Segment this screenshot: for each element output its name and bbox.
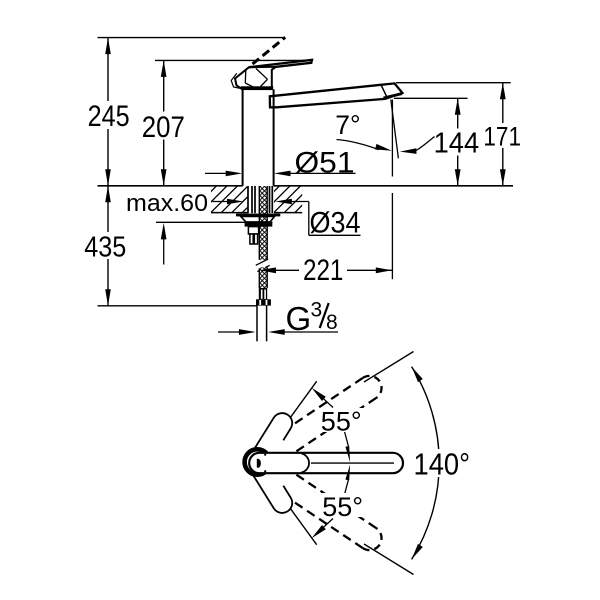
- svg-text:207: 207: [142, 111, 185, 144]
- counter top line: [98, 185, 243, 187]
- svg-text:245: 245: [88, 100, 130, 133]
- threaded shank vertical lines: [247, 186, 249, 213]
- hose connector upper: [259, 288, 267, 299]
- 55 deg leader to reference line (lower): [316, 519, 333, 535]
- 55 deg leader to center line (lower): [345, 479, 349, 495]
- dimension 207 line: [163, 60, 165, 185]
- vertical reference line from spout tip: [391, 100, 393, 177]
- counter underside line left: [211, 212, 248, 214]
- 7 deg left leader arc: [337, 140, 379, 150]
- dimension 245 line: [107, 38, 109, 186]
- dimension 435 line: [107, 186, 109, 306]
- arrow 140 arc top: [412, 367, 423, 383]
- arrow 144 bottom: [455, 169, 461, 186]
- svg-text:435: 435: [84, 231, 126, 263]
- arrow 171 bottom: [500, 169, 506, 186]
- faucet body circle (top view): [245, 449, 270, 474]
- svg-text:max.60: max.60: [126, 190, 208, 217]
- flange skirt: [241, 216, 275, 222]
- body end cap arc (top view): [301, 453, 309, 472]
- extension line bottom of 435 (hose nut level): [98, 305, 258, 307]
- 55 deg leader to reference line (upper): [316, 392, 333, 408]
- arrow 207 top: [161, 60, 167, 77]
- lever raised position (dashed): [253, 37, 286, 64]
- arrow 144 top: [455, 98, 461, 115]
- faucet column body: [242, 89, 244, 185]
- spout capsule (top view, solid): [249, 453, 403, 473]
- dimension 171 line: [502, 83, 504, 186]
- hose connector nut: [256, 299, 271, 305]
- 7 deg right leader arc: [415, 137, 435, 152]
- leader line for Ø34: [275, 199, 292, 205]
- dimension 144 line: [457, 98, 459, 186]
- counter underside line right: [274, 212, 302, 214]
- arrow 245 top: [105, 38, 111, 55]
- handle facet lines: [244, 69, 247, 83]
- svg-text:3: 3: [311, 299, 323, 322]
- dashed swivel spout position lower: [259, 479, 363, 549]
- svg-text:55°: 55°: [321, 406, 362, 436]
- dimension 221: [260, 267, 277, 273]
- arrow 140 arc bottom: [412, 544, 423, 560]
- dimension Ø51: [205, 172, 228, 174]
- max.60 depth line: [156, 221, 273, 223]
- extension line top of raised lever (245 dim): [98, 37, 285, 39]
- svg-text:140°: 140°: [414, 446, 471, 481]
- arrow 207 bottom: [161, 169, 167, 186]
- spout center line (top view): [311, 462, 394, 464]
- extension line from lower dashed tip: [364, 544, 414, 575]
- arrow 435 top: [105, 186, 111, 203]
- 55 deg leader to center line (upper): [345, 432, 349, 448]
- extension line 144 (spout outlet): [394, 97, 468, 99]
- 55 deg reference line upper: [267, 381, 316, 449]
- arrow 171 top: [500, 83, 506, 100]
- svg-text:7°: 7°: [335, 110, 360, 140]
- braided supply hose (crosshatch) upper: [259, 186, 267, 260]
- counter hatching right: [180, 186, 343, 213]
- spout tip crease line: [382, 86, 388, 98]
- max.60 up arrow: [163, 237, 165, 265]
- lever (solid): [249, 60, 312, 67]
- 55 deg reference line lower: [267, 477, 316, 545]
- mounting nut body: [248, 227, 258, 234]
- svg-text:Ø34: Ø34: [310, 207, 361, 240]
- svg-text:171: 171: [483, 122, 521, 152]
- braided supply hose (crosshatch) lower: [259, 267, 267, 288]
- handle faceted knob outline: [235, 67, 276, 88]
- mounting nut dark band: [245, 222, 273, 226]
- solid rotated outline upper: [253, 413, 292, 461]
- spout outlet dark band: [384, 94, 403, 98]
- svg-text:144: 144: [434, 128, 480, 160]
- handle left tip facet: [231, 73, 241, 88]
- connection tube: [256, 306, 258, 342]
- solid rotated outline lower: [253, 465, 292, 513]
- spout outline: [270, 83, 403, 107]
- mounting washer bar: [236, 214, 280, 217]
- cartridge ring band at column top: [241, 86, 273, 90]
- 140 deg swivel arc: [412, 367, 440, 560]
- extension line from upper dashed tip: [364, 352, 414, 383]
- dashed swivel spout position upper: [259, 378, 363, 448]
- svg-text:G: G: [286, 300, 312, 337]
- svg-text:8: 8: [326, 311, 338, 334]
- arrow 245 bottom: [105, 169, 111, 186]
- extension line 171 (spout top): [396, 82, 511, 84]
- 7 deg tilted stream line: [391, 100, 399, 159]
- dimension G3/8 arrows: [218, 331, 241, 333]
- max.60 leader arrow to shank: [213, 201, 230, 203]
- counter hatching left: [180, 186, 343, 213]
- svg-text:Ø51: Ø51: [295, 147, 355, 180]
- arrow 435 bottom: [105, 289, 111, 306]
- svg-text:221: 221: [303, 254, 344, 287]
- handle end mark (top view): [257, 459, 261, 468]
- extension line top of lever (207 dim): [155, 59, 312, 61]
- hose break symbol: [256, 259, 268, 265]
- svg-text:55°: 55°: [322, 492, 363, 522]
